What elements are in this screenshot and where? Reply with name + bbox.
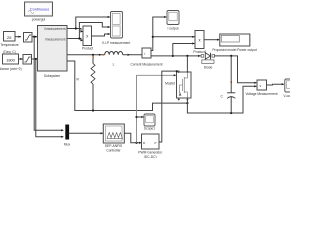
rate limiter 1 — [24, 33, 33, 43]
scope V-output (clipped at right edge) — [283, 79, 296, 98]
wire V tap to product1 in2 — [173, 42, 195, 56]
svg-text:Continuous: Continuous — [30, 7, 49, 11]
PWM generator block — [138, 134, 163, 159]
wire mosfet drain to power line — [186, 56, 188, 70]
svg-text:Proposed model Power output: Proposed model Power output — [212, 48, 256, 52]
node G branch (to mux) — [35, 58, 37, 60]
svg-text:(DC-DC): (DC-DC) — [144, 155, 157, 158]
svg-text:Subsystem: Subsystem — [44, 74, 61, 78]
svg-text:V-I-P measurement: V-I-P measurement — [102, 41, 130, 45]
wire PWM out riser to mosfet gate — [159, 70, 178, 142]
svg-text:powergui: powergui — [32, 18, 46, 22]
wire product to VIP scope — [92, 33, 111, 36]
powergui block — [25, 2, 53, 22]
svg-text:Product: Product — [82, 47, 93, 51]
product1 block — [193, 31, 206, 54]
svg-text:Current Measurement: Current Measurement — [130, 63, 162, 67]
svg-text:Diode: Diode — [204, 66, 213, 70]
wire mux to controller — [69, 132, 104, 134]
wire subsystem + terminal to inductor — [67, 54, 105, 56]
svg-text:25: 25 — [7, 35, 11, 40]
scope1 — [144, 114, 155, 131]
subsystem PV array — [38, 26, 68, 79]
bus to capacitor bottom and VM - input — [187, 85, 256, 113]
node V branch — [75, 27, 77, 29]
svg-text:Voltage Measurement: Voltage Measurement — [245, 92, 277, 96]
svg-text:Mux: Mux — [64, 142, 71, 146]
wire 25 to rate limiter 1 — [15, 36, 21, 38]
wire rate limiter 2 to subsystem input 2 — [32, 58, 38, 60]
svg-text:L: L — [113, 62, 115, 66]
port marker red tick — [103, 54, 105, 55]
wire product1 to display — [204, 39, 220, 41]
SEP-ANFIS controller block — [103, 124, 124, 152]
mux block — [64, 125, 71, 146]
wire current signal riser to I scope and Product1 — [151, 16, 195, 51]
duty riser to mosfet gate region — [137, 74, 177, 143]
product block (V x I) — [82, 26, 93, 51]
svg-text:Scope1: Scope1 — [144, 127, 155, 131]
svg-text:Mosfet: Mosfet — [165, 82, 175, 86]
wire rate limiter 1 to subsystem input 1 — [32, 36, 37, 38]
svg-text:V-output: V-output — [283, 94, 290, 98]
svg-text:Temperature: Temperature — [0, 43, 19, 47]
wire subsystem - terminal down to bus — [67, 61, 187, 111]
svg-text:P: P — [155, 141, 157, 145]
svg-text:I output: I output — [168, 27, 179, 31]
node mosfet drain tap — [186, 55, 188, 57]
svg-text:Product1: Product1 — [193, 50, 206, 54]
svg-text:v: v — [260, 84, 262, 88]
node product1 V tap — [172, 55, 174, 57]
wire to scope1 — [137, 116, 144, 118]
node R top — [92, 54, 94, 56]
wire Vmeasurement out — [67, 16, 110, 33]
wire 1800 to rate limiter 2 — [19, 58, 23, 60]
display Proposed model Power output — [212, 34, 256, 52]
node I branch — [78, 37, 80, 39]
wire mosfet source to bus — [186, 100, 188, 103]
diode D1 — [201, 53, 214, 70]
svg-text:Imeasurement: Imeasurement — [45, 38, 65, 42]
wire Imeasurement out — [67, 23, 110, 42]
voltage measurement block — [245, 80, 277, 96]
rate limiter 2 — [23, 55, 32, 65]
mosfet block — [165, 70, 191, 100]
wire VM to V scope — [267, 83, 285, 85]
capacitor C — [221, 56, 236, 113]
svg-text:SEP-ANFIS: SEP-ANFIS — [105, 144, 123, 148]
scope V-I-P measurement — [102, 12, 130, 46]
svg-text:Irradiance (w/m^2): Irradiance (w/m^2) — [0, 67, 22, 71]
constant block 25 (Temperature) — [0, 32, 19, 55]
svg-text:Vmeasurement: Vmeasurement — [44, 27, 66, 31]
wire current measurement to diode — [151, 55, 201, 57]
constant block 1800 (Irradiance) — [0, 54, 22, 71]
current measurement block — [130, 48, 162, 67]
node scope1 branch — [135, 116, 137, 118]
wire T signal down to mux in1 — [34, 37, 63, 132]
node capacitor top — [230, 55, 232, 57]
wire controller to PWM generator — [124, 133, 141, 144]
node mosfet source bottom — [186, 102, 188, 104]
node i signal branch — [152, 36, 154, 38]
wire G signal down to mux in2 — [36, 59, 64, 138]
scope I output — [167, 11, 179, 31]
svg-text:1800: 1800 — [6, 58, 15, 63]
node T branch (to mux) — [33, 36, 35, 38]
node resistor bottom — [92, 109, 94, 111]
inductor L — [105, 52, 123, 67]
svg-text:Controller: Controller — [106, 148, 121, 152]
svg-text:(Deg. C): (Deg. C) — [3, 50, 15, 54]
resistor R — [77, 55, 96, 111]
node capacitor bottom — [230, 112, 232, 114]
wire inductor to current measurement — [123, 54, 142, 56]
node duty branch — [135, 142, 137, 144]
wire diode to VM riser — [214, 56, 257, 84]
